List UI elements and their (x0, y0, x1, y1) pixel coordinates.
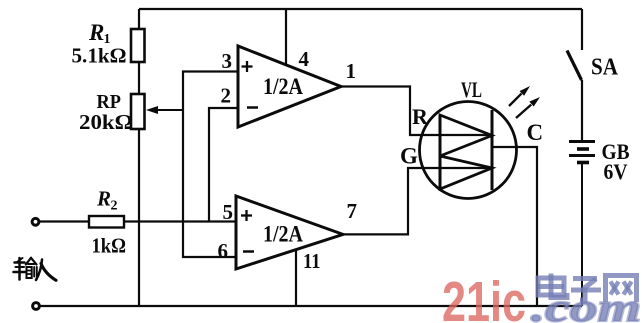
op-amp U1B (1/2A bottom) (236, 196, 343, 269)
LED VL anode bar left (439, 115, 442, 189)
wire input to R2 (39, 220, 90, 222)
svg-text:.com: .com (531, 285, 641, 323)
input terminal top (32, 218, 39, 225)
zi (573, 276, 597, 281)
svg-text:20kΩ: 20kΩ (79, 110, 133, 134)
light emission arrow 1 (509, 86, 530, 106)
wire output pin7 to G lead (343, 168, 492, 234)
svg-text:2: 2 (221, 84, 232, 108)
svg-text:6: 6 (218, 239, 229, 263)
LED VL green diode triangle (440, 156, 492, 189)
svg-text:SA: SA (591, 55, 619, 81)
watermark 21ic (442, 270, 526, 323)
wire R2 to pin5 (124, 220, 236, 222)
svg-text:6V: 6V (604, 159, 628, 184)
op-amp U1A (1/2A top) (238, 46, 341, 127)
svg-text:7: 7 (347, 199, 358, 223)
svg-text:1/2A: 1/2A (263, 222, 303, 247)
wiper arrow of RP (146, 106, 183, 114)
svg-text:VL: VL (461, 77, 482, 102)
pin 1 label (346, 59, 357, 83)
label R2 value (92, 187, 127, 258)
wire reference net: pin3 / wiper / pin6 vertical (183, 72, 238, 258)
svg-text:5: 5 (223, 200, 234, 224)
potentiometer RP (131, 94, 145, 129)
switch SA (567, 9, 582, 140)
pin 11 label (303, 249, 321, 273)
输 right part roof (26, 258, 31, 265)
svg-text:11: 11 (303, 249, 321, 273)
LED VL circle (420, 102, 517, 199)
label GB (602, 139, 630, 164)
label R terminal (412, 104, 429, 129)
输 left radical (18, 258, 21, 280)
pin 4 wire (285, 9, 287, 65)
wire bottom rail (40, 305, 583, 307)
svg-text:1kΩ: 1kΩ (92, 234, 127, 258)
light emission arrow 2 (516, 97, 540, 118)
svg-text:R: R (88, 20, 104, 45)
label C terminal (527, 120, 544, 145)
resistor R1 (131, 29, 145, 62)
label R1 value (72, 20, 127, 68)
label G terminal (400, 144, 418, 169)
svg-text:3: 3 (222, 49, 233, 73)
label VL (461, 77, 482, 102)
svg-text:5.1kΩ: 5.1kΩ (72, 44, 127, 68)
label shuru (input) Chinese (14, 258, 57, 281)
pin 2 label (221, 84, 232, 108)
pin 5 label (223, 200, 234, 224)
resistor R2 (89, 216, 124, 228)
wang (606, 276, 637, 303)
svg-text:4: 4 (299, 47, 310, 71)
label SA (591, 55, 619, 81)
pin 7 label (347, 199, 358, 223)
pin 6 label (218, 239, 229, 263)
LED VL cathode bar right (491, 110, 494, 190)
dian (538, 278, 564, 295)
svg-text:G: G (400, 144, 418, 169)
battery GB (569, 142, 595, 307)
pin 11 wire (295, 250, 297, 306)
watermark .com (531, 285, 641, 323)
pin 4 label (299, 47, 310, 71)
watermark dianziwang (electronics net) (538, 274, 637, 303)
svg-text:21ic: 21ic (442, 270, 526, 323)
LED VL red diode triangle (440, 115, 492, 156)
入 strokes (36, 260, 42, 281)
svg-text:1/2A: 1/2A (263, 74, 303, 99)
svg-text:C: C (527, 120, 544, 145)
svg-text:1: 1 (346, 59, 357, 83)
svg-text:R: R (412, 104, 429, 129)
label RP value (79, 91, 133, 134)
label 6V (604, 159, 628, 184)
wire top supply rail (139, 8, 582, 10)
wire left branch vertical (R1/RP chain) (138, 9, 140, 306)
pin 3 label (222, 49, 233, 73)
svg-text:R: R (96, 187, 111, 211)
svg-text:2: 2 (111, 199, 118, 214)
wire output pin1 to R lead (341, 87, 492, 136)
wire C lead (492, 147, 537, 306)
input terminal bottom (33, 303, 40, 310)
wire signal net: pin2 vertical to R2 line (209, 108, 238, 222)
输 right part body (27, 267, 32, 278)
